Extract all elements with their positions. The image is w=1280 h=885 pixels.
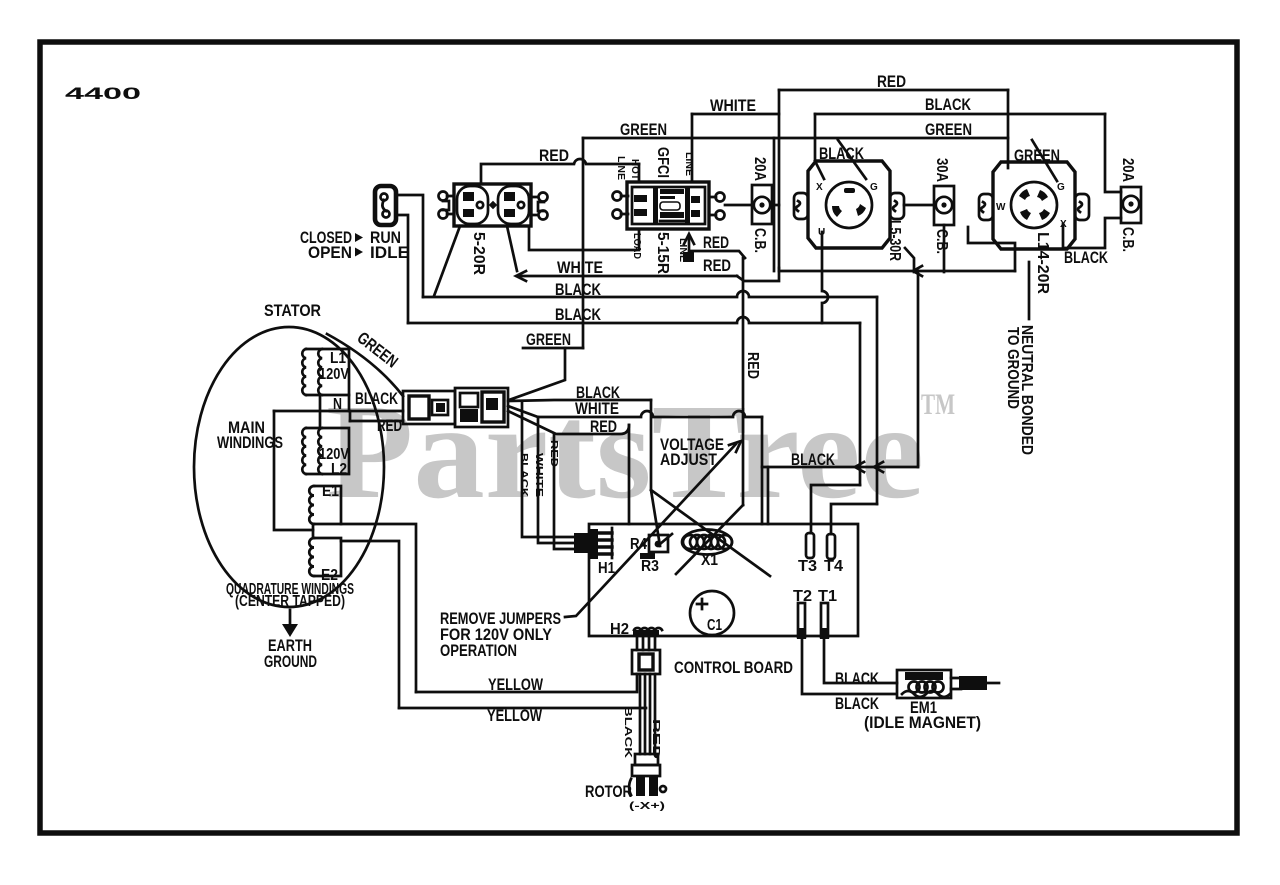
terminal T1 bbox=[820, 603, 829, 639]
circuit breaker C.B. 20A #2 bbox=[1121, 187, 1141, 223]
arrow marks after CLOSED/OPEN bbox=[355, 233, 363, 257]
svg-text:WHITE: WHITE bbox=[557, 258, 603, 277]
wire 5-20R bottom to WHITE bus (slant) bbox=[507, 226, 517, 271]
svg-text:L14-20R: L14-20R bbox=[1034, 232, 1051, 294]
wire T1 to EM1 upper bbox=[824, 639, 897, 683]
wire black bus 1 down x877 bbox=[876, 297, 879, 504]
wire BLACK mid bus y323 (hop at x743) bbox=[408, 317, 860, 323]
stator ellipse bbox=[194, 327, 384, 607]
svg-text:BLACK: BLACK bbox=[835, 694, 880, 713]
5-20R left screws bbox=[439, 192, 455, 219]
connector CN2 (right half) bbox=[455, 388, 508, 427]
EM1 plunger bbox=[951, 676, 999, 690]
wire red drop to L14-20R bbox=[1007, 90, 1010, 168]
wire RED from GFCI bottom to voltage-adjust vertical bbox=[689, 237, 745, 258]
wire red drop x629 to board bbox=[628, 425, 631, 524]
wire T4 z-feed bbox=[831, 504, 877, 534]
wire GFCI to CB1 bbox=[725, 204, 752, 207]
circuit breaker C.B. 20A #1 bbox=[752, 185, 772, 224]
svg-text:BLACK: BLACK bbox=[355, 389, 399, 408]
wire GREEN bus y138 (GFCI to right) bbox=[583, 137, 774, 140]
svg-text:STATOR: STATOR bbox=[264, 301, 321, 320]
wire N branch down to quadrature center tap bbox=[274, 411, 313, 530]
svg-text:TM: TM bbox=[921, 388, 955, 421]
svg-text:ROTOR: ROTOR bbox=[585, 782, 632, 801]
svg-text:RED: RED bbox=[590, 417, 617, 436]
svg-text:C.B.: C.B. bbox=[933, 229, 950, 254]
arrow junction at x914 bbox=[913, 266, 922, 276]
svg-text:RED: RED bbox=[703, 256, 731, 275]
connector H1 bbox=[574, 528, 612, 559]
GFCI 5-15R body bbox=[627, 182, 709, 229]
wire H1 feeder white x538 bbox=[538, 417, 574, 543]
svg-text:20A: 20A bbox=[751, 157, 768, 181]
wire 5-20R bottom right to GFCI load bottom (U path) bbox=[529, 226, 639, 250]
wire BLACK mid bus y297 (hop at x743) bbox=[423, 291, 877, 297]
svg-text:30A: 30A bbox=[933, 158, 950, 182]
small diagonal into R4 dot bbox=[660, 534, 672, 544]
twist-lock receptacle L5-30R bbox=[794, 161, 904, 248]
svg-text:LOAD: LOAD bbox=[631, 233, 642, 259]
wire CB1 right to hot vertical bbox=[772, 204, 779, 207]
svg-text:LINE: LINE bbox=[615, 156, 626, 180]
wire E1/E2 center link bbox=[312, 524, 315, 538]
svg-text:H1: H1 bbox=[598, 560, 615, 577]
svg-text:W: W bbox=[996, 202, 1006, 213]
svg-text:T3: T3 bbox=[798, 558, 817, 575]
svg-text:120V: 120V bbox=[319, 366, 350, 383]
rotor wire pair (red) bbox=[650, 674, 655, 754]
earth ground arrow bbox=[282, 610, 298, 637]
wire L5-30R U pin down to black bus y323 (hop at 297) bbox=[822, 232, 828, 323]
GFCI left screws bbox=[613, 192, 629, 219]
svg-text:HOT: HOT bbox=[629, 159, 640, 180]
svg-text:BLACK: BLACK bbox=[518, 453, 529, 498]
svg-text:TO GROUND: TO GROUND bbox=[1004, 327, 1021, 409]
wire GREEN top bus y138 continues bbox=[774, 137, 1008, 140]
watermark PartsTree bbox=[326, 377, 955, 527]
svg-text:RED: RED bbox=[877, 72, 906, 91]
svg-text:X1: X1 bbox=[701, 552, 718, 569]
wire BLACK top bus y114 bbox=[815, 113, 1105, 116]
rotor wire pair (black) bbox=[640, 674, 645, 754]
svg-text:E1: E1 bbox=[322, 483, 339, 500]
svg-text:RED: RED bbox=[377, 416, 402, 435]
wire board entry drop x768 bbox=[767, 467, 770, 524]
svg-text:L2: L2 bbox=[331, 461, 347, 478]
wire H1 feeder red x554 bbox=[554, 434, 574, 549]
wire H1 feeder black x522 bbox=[522, 401, 574, 537]
wire RED: 5-20R top to GFCI line (with hop over green vertical) bbox=[481, 159, 639, 184]
svg-text:CONTROL BOARD: CONTROL BOARD bbox=[674, 658, 793, 677]
svg-text:RED: RED bbox=[539, 146, 569, 165]
twist-lock receptacle L14-20R bbox=[979, 162, 1089, 249]
svg-text:T4: T4 bbox=[824, 558, 843, 575]
svg-text:20A: 20A bbox=[1119, 158, 1136, 182]
wire center-tap stub x320 bbox=[319, 395, 322, 428]
svg-text:RED: RED bbox=[744, 352, 761, 379]
wire white/neutral drop x918 bbox=[917, 271, 920, 467]
leader green to G pin bbox=[838, 140, 866, 179]
svg-text:C.B.: C.B. bbox=[751, 228, 768, 253]
leader black to X pin bbox=[815, 161, 824, 179]
connector CN1 (left half) bbox=[403, 391, 455, 424]
svg-text:BLACK: BLACK bbox=[555, 305, 602, 324]
wire green curve stator to connector bbox=[327, 334, 403, 396]
capacitor C1 bbox=[690, 591, 734, 635]
svg-text:G: G bbox=[1057, 182, 1065, 193]
arrow junction x875 bbox=[874, 462, 883, 472]
wire white/neutral bus y271 right section bbox=[779, 270, 1015, 273]
winding E2 bbox=[309, 538, 341, 576]
wire CB2 bottom to white bus bbox=[943, 225, 946, 272]
svg-text:BLACK: BLACK bbox=[1064, 248, 1109, 267]
control board outline bbox=[589, 524, 858, 636]
svg-text:(-X+): (-X+) bbox=[629, 801, 665, 812]
connector H2 housing bbox=[632, 650, 660, 674]
wire L5-30R W to white bus bbox=[905, 248, 914, 272]
arrow up into GFCI bottom bbox=[684, 234, 694, 244]
GFCI right screws bbox=[709, 193, 725, 220]
svg-text:OPEN: OPEN bbox=[308, 243, 352, 262]
wire black board-entry y467 bbox=[762, 466, 918, 469]
svg-text:GFCI: GFCI bbox=[654, 147, 671, 178]
winding L1 bbox=[302, 349, 349, 395]
svg-text:RED: RED bbox=[703, 233, 729, 252]
wire switch to BLACK bus 1 bbox=[396, 195, 423, 297]
receptacle 5-20R duplex body bbox=[443, 184, 544, 226]
arrow junction x856 bbox=[855, 462, 864, 472]
resistor R3 block bbox=[640, 553, 655, 559]
wire hot vertical x779 (red feed) bbox=[778, 90, 781, 268]
winding L2 bbox=[302, 428, 349, 474]
wire RED lead L2 to connector bbox=[350, 420, 403, 423]
voltage adjust arrow bbox=[729, 441, 741, 452]
leader neutral bonded bbox=[1028, 262, 1031, 319]
wire black bus down into CB3 bbox=[1105, 114, 1121, 192]
wire RED top bus y90 bbox=[779, 89, 1008, 92]
wire L1 right stub down to N bbox=[348, 395, 351, 411]
wire fan RED from connector bbox=[508, 411, 629, 434]
svg-text:GROUND: GROUND bbox=[264, 652, 317, 671]
svg-text:5-20R: 5-20R bbox=[470, 232, 487, 275]
wire fan WHITE from connector (hops at 651 and 743) bbox=[508, 406, 762, 417]
svg-text:ADJUST: ADJUST bbox=[660, 450, 718, 469]
blob terminal below GFCI bbox=[683, 252, 694, 262]
terminal T2 bbox=[797, 603, 806, 639]
svg-text:C.B.: C.B. bbox=[1119, 227, 1136, 252]
wire black bus 2 down x860 bbox=[859, 323, 862, 485]
svg-text:WHITE: WHITE bbox=[533, 453, 544, 497]
wire E2 top line to yellow drop x399 bbox=[341, 541, 399, 708]
svg-text:L5-30R: L5-30R bbox=[886, 220, 903, 261]
trimmer R4 bbox=[649, 535, 668, 552]
terminal T4 bbox=[827, 534, 835, 559]
rotor connector bbox=[629, 754, 666, 796]
circuit breaker C.B. 30A bbox=[934, 186, 954, 225]
transformer X1 bbox=[682, 530, 732, 555]
wire YELLOW 2 bbox=[399, 707, 646, 710]
wire YELLOW 1 bbox=[416, 674, 637, 692]
wire CB3 out to L14 X pin bbox=[1063, 218, 1121, 248]
funnel diagonal left (black to X area) bbox=[651, 490, 770, 576]
svg-text:H2: H2 bbox=[610, 621, 629, 638]
wire GREEN mid y348 bbox=[523, 347, 583, 350]
wire T2 to EM1 lower bbox=[802, 639, 895, 694]
svg-text:L1: L1 bbox=[330, 350, 346, 367]
wire green stub down and diagonal to connector bbox=[509, 348, 565, 400]
svg-text:BLACK: BLACK bbox=[835, 669, 880, 688]
svg-text:5-15R: 5-15R bbox=[654, 232, 671, 274]
wire WHITE top y114 bbox=[692, 113, 779, 116]
svg-text:(IDLE MAGNET): (IDLE MAGNET) bbox=[864, 713, 981, 732]
switch SW1 (run/idle) bbox=[375, 186, 396, 225]
wire fan BLACK from connector bbox=[508, 400, 651, 401]
arrow at white bus left end bbox=[516, 271, 526, 281]
idle magnet EM1 bbox=[897, 670, 951, 698]
svg-text:GREEN: GREEN bbox=[925, 120, 972, 139]
winding E1 bbox=[309, 486, 341, 524]
svg-text:R3: R3 bbox=[641, 558, 659, 575]
terminal T3 bbox=[806, 533, 814, 558]
wire L14 W pin white loop bbox=[968, 227, 1015, 271]
svg-text:IDLE: IDLE bbox=[370, 243, 409, 262]
wire L2 top stub bbox=[349, 411, 352, 421]
leader green to G pin of L14 bbox=[1032, 140, 1057, 181]
wire switch to BLACK bus 2 bbox=[396, 215, 408, 323]
svg-text:RED: RED bbox=[548, 440, 559, 467]
wire green vertical x774 bbox=[773, 138, 776, 271]
wire 5-20R bottom-left to BLACK bus (slant) bbox=[434, 226, 460, 296]
svg-text:WHITE: WHITE bbox=[710, 96, 756, 115]
svg-text:OPERATION: OPERATION bbox=[440, 641, 517, 660]
wire red vertical x743 down to funnel bbox=[742, 258, 745, 505]
wire WHITE mid bus y276 with left arrow bbox=[517, 275, 737, 278]
wire white stub into GFCI top right bbox=[691, 114, 694, 182]
svg-text:C1: C1 bbox=[707, 617, 722, 634]
svg-text:GREEN: GREEN bbox=[526, 330, 571, 349]
wire black drop x651 into board (to R4) bbox=[651, 400, 660, 546]
svg-text:BLACK: BLACK bbox=[622, 706, 633, 759]
funnel diagonal right bbox=[676, 505, 743, 574]
wire E1 bottom line to yellow drop x416 bbox=[341, 524, 416, 692]
connector H2 comb bbox=[633, 628, 662, 650]
svg-text:4400: 4400 bbox=[65, 84, 141, 103]
5-20R right screws bbox=[531, 193, 548, 220]
wire L5-30R right ear to CB2 bbox=[904, 204, 934, 207]
svg-text:X: X bbox=[816, 182, 823, 193]
svg-text:GREEN: GREEN bbox=[620, 120, 667, 139]
svg-text:(CENTER TAPPED): (CENTER TAPPED) bbox=[235, 593, 345, 610]
wire vertical into GFCI top bbox=[638, 164, 641, 182]
remove-jumpers pointer line bbox=[565, 444, 736, 617]
svg-text:WHITE: WHITE bbox=[575, 399, 619, 418]
svg-text:G: G bbox=[870, 182, 878, 193]
wire GREEN vertical x583 down to green bus y348 bbox=[582, 138, 585, 348]
svg-text:R4: R4 bbox=[630, 536, 647, 553]
wire T3 z-feed bbox=[811, 485, 860, 533]
wire black drop to L5-30R label bbox=[814, 114, 817, 160]
svg-text:BLACK: BLACK bbox=[925, 95, 972, 114]
wire white jog to junction x779 bbox=[737, 268, 779, 281]
wire white drop x762 to board bbox=[761, 417, 764, 524]
wire neutral line y411 bbox=[274, 410, 403, 413]
